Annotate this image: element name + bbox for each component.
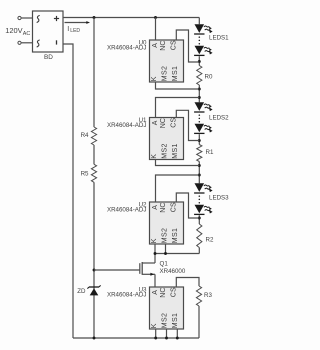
svg-text:NC: NC [160, 40, 167, 50]
svg-text:120V: 120V [5, 26, 22, 35]
svg-text:XR46000: XR46000 [160, 268, 186, 275]
svg-text:Q1: Q1 [160, 261, 169, 268]
svg-text:R0: R0 [205, 74, 213, 81]
svg-text:AC: AC [23, 31, 31, 37]
svg-text:R5: R5 [81, 171, 89, 178]
svg-text:A: A [152, 120, 159, 125]
svg-text:CS: CS [170, 40, 177, 50]
svg-text:MS2: MS2 [162, 66, 169, 81]
svg-text:R4: R4 [81, 132, 89, 139]
svg-text:I: I [67, 26, 69, 33]
svg-text:A: A [152, 205, 159, 210]
svg-text:XR46084-ADJ: XR46084-ADJ [107, 292, 147, 299]
svg-text:XR46084-ADJ: XR46084-ADJ [107, 122, 147, 129]
svg-text:XR46084-ADJ: XR46084-ADJ [107, 45, 147, 52]
svg-text:NC: NC [160, 202, 167, 212]
svg-text:K: K [151, 154, 158, 159]
svg-text:LEDS3: LEDS3 [209, 195, 229, 202]
svg-text:MS2: MS2 [162, 143, 169, 158]
svg-text:NC: NC [160, 287, 167, 297]
svg-text:A: A [152, 290, 159, 295]
svg-text:MS2: MS2 [162, 313, 169, 328]
svg-text:MS1: MS1 [172, 143, 179, 158]
svg-text:K: K [151, 76, 158, 81]
svg-text:A: A [152, 43, 159, 48]
svg-text:R1: R1 [206, 149, 214, 156]
svg-text:BD: BD [44, 54, 53, 61]
svg-text:CS: CS [170, 117, 177, 127]
svg-text:MS1: MS1 [172, 66, 179, 81]
svg-text:K: K [151, 323, 158, 328]
svg-text:MS2: MS2 [162, 228, 169, 243]
svg-text:LEDS2: LEDS2 [209, 115, 229, 122]
svg-text:LEDS1: LEDS1 [209, 35, 229, 42]
svg-text:R3: R3 [204, 292, 212, 299]
svg-text:LED: LED [70, 28, 80, 34]
svg-text:K: K [151, 238, 158, 243]
svg-text:R2: R2 [206, 237, 214, 244]
svg-text:CS: CS [170, 202, 177, 212]
svg-text:ZD: ZD [77, 288, 86, 295]
svg-text:MS1: MS1 [172, 228, 179, 243]
svg-text:XR46084-ADJ: XR46084-ADJ [107, 207, 147, 214]
svg-text:NC: NC [160, 118, 167, 128]
svg-text:MS1: MS1 [172, 313, 179, 328]
svg-text:CS: CS [170, 287, 177, 297]
